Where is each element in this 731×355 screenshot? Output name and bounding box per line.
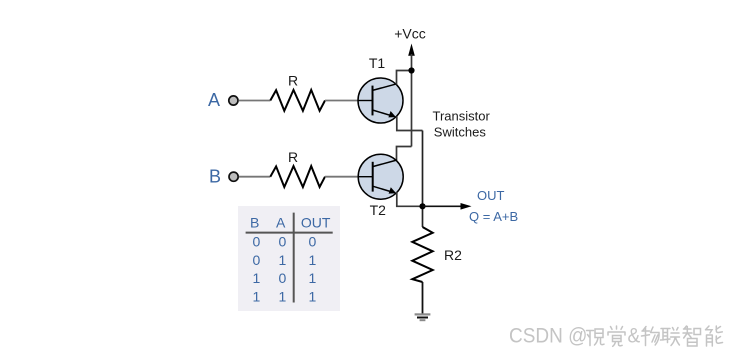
label T1 bbox=[369, 55, 386, 71]
svg-text:1: 1 bbox=[279, 289, 287, 305]
svg-text:1: 1 bbox=[253, 270, 261, 286]
OUT arrowhead bbox=[461, 203, 472, 210]
resistor R (input A) bbox=[270, 90, 325, 111]
label OUT bbox=[477, 188, 505, 203]
svg-text:1: 1 bbox=[309, 252, 317, 268]
label R (input A resistor) bbox=[288, 73, 298, 89]
label Transistor Switches bbox=[433, 109, 491, 140]
svg-text:Switches: Switches bbox=[434, 124, 487, 139]
label R2 bbox=[444, 247, 462, 263]
wire B terminal to R bbox=[239, 176, 270, 178]
svg-text:0: 0 bbox=[309, 233, 317, 249]
svg-text:0: 0 bbox=[279, 233, 287, 249]
truth table horizontal rule bbox=[246, 232, 333, 234]
terminal A bbox=[229, 96, 238, 105]
svg-text:Transistor: Transistor bbox=[433, 109, 491, 124]
truth table row 3: 1 0 1 bbox=[253, 270, 317, 286]
svg-text:T1: T1 bbox=[369, 55, 386, 71]
truth table row 2: 0 1 1 bbox=[253, 252, 317, 268]
svg-text:B: B bbox=[250, 214, 259, 230]
node B label bbox=[209, 166, 221, 186]
watermark glyph lian (CJK) bbox=[661, 328, 680, 346]
label R (input B resistor) bbox=[288, 149, 298, 165]
watermark ampersand bbox=[628, 325, 641, 348]
power Vcc arrow bbox=[408, 44, 415, 56]
svg-text:R: R bbox=[288, 73, 298, 89]
svg-text:0: 0 bbox=[253, 233, 261, 249]
svg-text:CSDN @: CSDN @ bbox=[509, 325, 587, 348]
watermark glyph wu (CJK) bbox=[642, 327, 660, 346]
wire T1 collector to Vcc rail bbox=[397, 71, 412, 85]
truth table background bbox=[238, 206, 340, 311]
svg-text:R2: R2 bbox=[444, 247, 462, 263]
terminal B bbox=[229, 172, 238, 181]
svg-text:&: & bbox=[628, 325, 641, 348]
svg-text:1: 1 bbox=[279, 252, 287, 268]
wire R to T2 base bbox=[325, 176, 359, 178]
svg-text:A: A bbox=[276, 214, 286, 230]
svg-text:R: R bbox=[288, 149, 298, 165]
svg-text:B: B bbox=[209, 166, 221, 186]
svg-text:1: 1 bbox=[253, 289, 261, 305]
transistor T1 bbox=[358, 78, 403, 123]
svg-text:OUT: OUT bbox=[477, 188, 505, 203]
svg-text:+Vcc: +Vcc bbox=[394, 26, 426, 42]
truth table vertical rule bbox=[293, 213, 295, 303]
svg-text:A: A bbox=[208, 90, 220, 110]
wire R2 to ground bbox=[422, 282, 424, 314]
transistor T2 bbox=[358, 154, 403, 199]
junction dot Vcc / T1 collector bbox=[408, 67, 414, 73]
label T2 bbox=[370, 202, 387, 218]
watermark glyph zhi (CJK) bbox=[683, 326, 701, 346]
wire output node to OUT arrow bbox=[423, 205, 463, 207]
truth table row 4: 1 1 1 bbox=[253, 289, 317, 305]
label Q = A+B bbox=[469, 209, 518, 224]
wire output vertical (T1 emitter to R2) bbox=[422, 131, 424, 228]
svg-text:1: 1 bbox=[309, 289, 317, 305]
watermark glyph jue (CJK) bbox=[608, 326, 625, 346]
watermark glyph shi (CJK) bbox=[587, 329, 605, 346]
wire Vcc rail vertical bbox=[411, 54, 413, 147]
watermark CSDN text bbox=[509, 325, 587, 348]
svg-text:Q = A+B: Q = A+B bbox=[469, 209, 518, 224]
wire R to T1 base bbox=[325, 100, 359, 102]
truth table header row bbox=[250, 214, 331, 230]
svg-text:OUT: OUT bbox=[301, 214, 331, 230]
junction dot output node bbox=[419, 203, 425, 209]
svg-text:T2: T2 bbox=[370, 202, 387, 218]
truth table row 1: 0 0 0 bbox=[253, 233, 317, 249]
label +Vcc bbox=[394, 26, 426, 42]
wire Vcc rail to T2 collector bbox=[397, 147, 412, 161]
svg-text:0: 0 bbox=[279, 270, 287, 286]
svg-text:0: 0 bbox=[253, 252, 261, 268]
resistor R2 bbox=[412, 227, 432, 282]
watermark glyph neng (CJK) bbox=[706, 326, 723, 346]
ground symbol bbox=[415, 314, 431, 320]
wire T1 emitter to output line bbox=[397, 117, 423, 131]
wire T2 emitter to output node bbox=[397, 192, 423, 207]
node A label bbox=[208, 90, 220, 110]
wire A terminal to R bbox=[239, 100, 271, 102]
resistor R (input B) bbox=[270, 166, 325, 187]
svg-text:1: 1 bbox=[309, 270, 317, 286]
